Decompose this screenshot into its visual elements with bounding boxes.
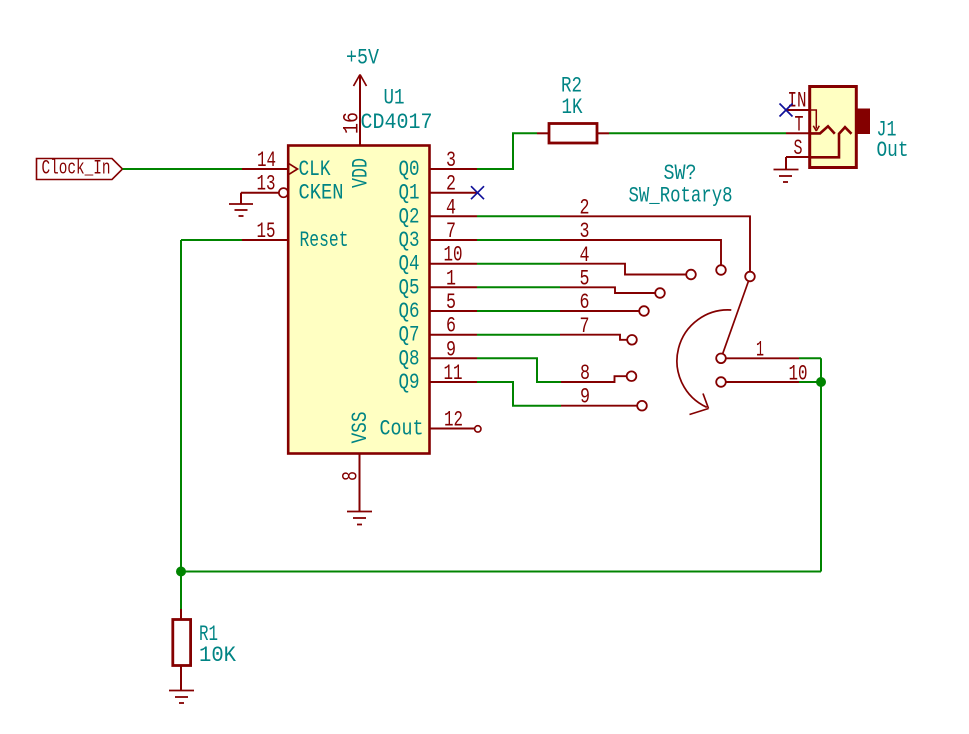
U1 pin 2 Q1 [430,192,478,194]
SW pin 10 [726,381,799,383]
no-connect X at Q1 [471,186,484,199]
SW arc arrowhead [690,394,709,415]
SW pin 3 [560,240,721,265]
svg-text:8: 8 [580,361,590,386]
SW contact 4 [686,270,696,280]
SW contact 8 [627,371,637,381]
svg-text:5: 5 [446,290,456,315]
svg-text:6: 6 [446,314,456,339]
svg-text:Q9: Q9 [399,370,420,395]
junction at R1 top [176,567,186,577]
J1 tip contact chevron [811,126,835,134]
SW contact 9 [637,401,647,411]
svg-text:Out: Out [877,138,909,163]
wire Q5 to SW pin 5 [477,286,560,288]
junction at SW pin 10 [816,377,826,387]
SW rotation arc [677,310,731,407]
SW pin 7 [560,335,627,340]
ground at R1 [169,691,194,704]
svg-text:Q1: Q1 [399,181,420,206]
svg-text:5: 5 [580,267,590,292]
svg-text:Q2: Q2 [399,204,420,229]
global label Clock_In [37,159,123,180]
SW contact 7 [627,335,637,345]
wire left vertical bus [180,240,182,609]
wire SW pin 10 to right bus [799,381,821,383]
wire Q6 to SW pin 6 [477,310,560,312]
wire Q3 to SW pin 3 [477,239,560,241]
svg-text:14: 14 [257,148,276,173]
SW pin 1 [726,357,799,359]
svg-text:Clock_In: Clock_In [42,158,111,181]
svg-text:7: 7 [446,219,456,244]
svg-text:7: 7 [580,314,590,339]
svg-text:9: 9 [580,385,590,410]
U1 pin 15 Reset [242,239,288,241]
svg-text:VDD: VDD [349,158,374,188]
J1 pin T [786,132,810,134]
svg-text:16: 16 [340,112,365,134]
SW contact 2 [745,272,755,282]
svg-text:9: 9 [446,337,456,362]
SW pin 9 [561,405,637,407]
svg-text:10: 10 [444,243,463,268]
svg-text:U1: U1 [384,86,405,111]
wire Q2 to SW pin 2 [477,215,560,217]
svg-text:3: 3 [580,219,590,244]
J1 sleeve tab [857,109,871,135]
J1 sleeve contact chevron [811,127,852,157]
svg-text:SW?: SW? [664,161,697,186]
wire S to ground [785,157,787,170]
SW pin 5 [560,287,655,293]
resistor R2 [537,124,609,144]
svg-text:Q5: Q5 [399,275,420,300]
svg-text:T: T [795,113,804,138]
SW pin 4 [560,264,686,275]
U1 pin 1 Q5 [430,286,477,288]
svg-text:6: 6 [580,290,590,315]
svg-text:3: 3 [446,148,456,173]
svg-text:1: 1 [756,338,764,363]
U1 pin 13 CKEN (inverted) [241,188,288,204]
power symbol +5V arrow [354,75,367,87]
svg-text:IN: IN [788,89,807,114]
U1 pin 5 Q6 [430,310,477,312]
svg-text:Reset: Reset [300,228,349,253]
wire right vertical bus [820,358,822,571]
SW pin 8 [561,376,627,382]
svg-text:CKEN: CKEN [299,181,344,206]
J1 internal tip-detect arrow [811,110,819,131]
svg-text:VSS: VSS [348,412,373,444]
ground at CKEN [229,204,253,216]
svg-text:2: 2 [580,196,590,221]
wire Q7 to SW pin 7 [477,334,560,336]
SW common pole contact 10 [716,377,726,387]
J1 pin S [786,156,810,158]
SW selector arm [723,282,749,354]
SW contact 3 [716,265,726,275]
resistor R1 [173,609,191,691]
SW common pole contact 1 [716,354,726,364]
U1 pin 4 Q2 [430,215,477,217]
wire Q9 to SW pin 9 [477,382,561,406]
svg-text:8: 8 [339,471,364,481]
svg-text:1: 1 [446,266,456,291]
wire bottom horizontal [181,571,821,573]
U1 pin 3 Q0 [430,168,477,170]
svg-text:Q8: Q8 [399,346,420,371]
SW pin 6 [560,310,639,312]
svg-text:11: 11 [444,361,463,386]
SW pin 2 [560,216,750,271]
svg-text:15: 15 [257,219,276,244]
svg-text:CLK: CLK [299,157,332,182]
svg-text:Q4: Q4 [399,252,420,277]
U1 pin 11 Q9 [430,381,477,383]
svg-text:Q0: Q0 [399,157,420,182]
ground at VSS [347,512,372,525]
svg-text:Q3: Q3 [399,228,420,253]
svg-text:1K: 1K [562,95,584,120]
svg-text:10K: 10K [199,643,237,668]
svg-text:12: 12 [444,408,463,433]
svg-text:Q7: Q7 [399,323,420,348]
U1 pin 9 Q8 [430,357,477,359]
U1 pin 12 Cout (unconnected) [430,428,475,430]
ground at J1 S [774,170,799,183]
svg-text:SW_Rotary8: SW_Rotary8 [629,184,733,209]
wire Reset to left bus [181,239,242,241]
U1 pin 8 VSS [359,454,361,512]
svg-text:4: 4 [580,243,590,268]
J1 pin IN [786,109,810,111]
wire SW pin 1 to right bus [799,357,821,359]
SW contact 6 [639,306,649,316]
U1 pin 7 Q3 [430,239,477,241]
svg-text:4: 4 [446,195,456,220]
wire R2 to J1 tip [609,132,786,134]
ic U1 body [288,146,429,454]
connector J1 body [810,87,857,168]
wire Clock_In to CLK [123,168,243,170]
no-connect X at J1 IN [780,104,793,117]
wire Q0 to R2 [477,133,537,169]
U1 pin 14 CLK [242,164,298,175]
svg-text:S: S [794,136,803,161]
U1 pin 10 Q4 [430,263,477,265]
SW contact 5 [655,288,665,298]
wire Q4 to SW pin 4 [477,263,560,265]
U1 pin 16 VDD [359,76,361,146]
svg-text:Q6: Q6 [399,299,420,324]
svg-text:Cout: Cout [380,417,424,442]
svg-text:+5V: +5V [346,46,380,71]
svg-text:CD4017: CD4017 [361,110,433,135]
U1 pin 6 Q7 [430,334,477,336]
svg-text:2: 2 [446,172,456,197]
wire Q8 to SW pin 8 [477,358,561,382]
svg-text:13: 13 [257,172,276,197]
